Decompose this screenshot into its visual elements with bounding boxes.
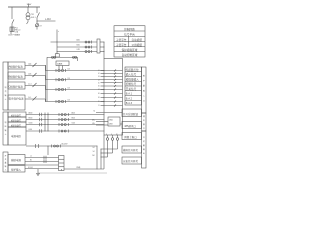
top right table (114, 26, 145, 57)
svg-text:1D1: 1D1 (68, 100, 71, 102)
svg-text:1-L1: 1-L1 (28, 97, 31, 99)
svg-text:公用模组: 公用模组 (132, 43, 143, 47)
box reserve port (122, 133, 142, 140)
AC supply wire with plug (26, 143, 98, 156)
svg-text:N1: N1 (30, 159, 32, 161)
svg-text:辅助电源: 辅助电源 (11, 158, 22, 162)
svg-text:LH: LH (40, 26, 43, 28)
svg-text:FU1: FU1 (15, 27, 18, 29)
rail x103 (103, 42, 105, 59)
bottom bus wire (60, 169, 62, 171)
svg-text:口: 口 (143, 127, 145, 130)
svg-text:B630: B630 (29, 117, 33, 119)
left strip voltage (3, 112, 8, 145)
right strip 2 (142, 113, 147, 131)
svg-text:保护模拟区域: 保护模拟区域 (122, 48, 138, 52)
svg-text:1D1: 1D1 (68, 69, 71, 71)
box analog switch (122, 146, 142, 153)
box zero-seq current (8, 95, 25, 110)
box B phase current (8, 72, 25, 79)
terminal strip top (97, 39, 100, 53)
svg-text:量: 量 (143, 84, 145, 88)
svg-text:仪表信号开关: 仪表信号开关 (123, 159, 139, 163)
box aux power (8, 155, 25, 165)
box A phase current (8, 62, 25, 69)
svg-text:相间电压: 相间电压 (11, 113, 22, 117)
svg-text:零序保护电流: 零序保护电流 (9, 97, 25, 101)
bus 10kV (8, 6, 40, 9)
svg-text:量: 量 (143, 143, 145, 147)
phase drop wire (56, 30, 58, 54)
svg-text:口: 口 (143, 100, 145, 103)
bottom terminals circles (92, 134, 119, 169)
svg-text:开: 开 (5, 154, 7, 158)
svg-text:02: 02 (98, 73, 100, 75)
voltage wire C (26, 122, 105, 126)
svg-text:C相保护电流: C相保护电流 (9, 84, 24, 88)
svg-text:输: 输 (5, 164, 7, 168)
svg-text:485A: 485A (109, 119, 113, 122)
svg-text:10kV: 10kV (27, 4, 32, 6)
svg-text:入: 入 (5, 169, 7, 172)
svg-text:开关信号: 开关信号 (126, 87, 137, 91)
svg-text:输入信号: 输入信号 (126, 73, 137, 77)
svg-text:C411: C411 (77, 49, 81, 51)
zero-seq loop (55, 54, 59, 57)
PT fuse block (10, 27, 12, 32)
svg-text:传感器点位: 传感器点位 (126, 68, 139, 72)
svg-text:1D1: 1D1 (68, 88, 71, 90)
current wire C (25, 83, 105, 91)
CT on feeder (36, 21, 38, 24)
breaker QF feeder (36, 7, 38, 13)
svg-text:字: 字 (143, 79, 145, 83)
svg-text:485+: 485+ (92, 120, 95, 122)
svg-text:RN2-10: RN2-10 (15, 29, 21, 31)
svg-text:模拟量输入: 模拟量输入 (126, 77, 139, 81)
pin left stubs (101, 71, 105, 106)
voltage boxes (8, 112, 26, 117)
bus label tick (27, 4, 29, 8)
box protect input (8, 166, 25, 173)
svg-text:1-A1: 1-A1 (28, 62, 32, 65)
phase wire C (57, 50, 97, 52)
wire L-010 (37, 20, 56, 22)
svg-text:TV1: TV1 (31, 14, 34, 16)
loop box (56, 61, 69, 66)
right strip 3 (142, 131, 147, 168)
right strip 1 (142, 67, 147, 113)
svg-text:08: 08 (98, 93, 100, 95)
svg-text:a: a (58, 31, 59, 33)
svg-text:B.A.1: B.A.1 (126, 92, 133, 96)
svg-text:模拟信号开关: 模拟信号开关 (123, 148, 139, 152)
svg-text:通: 通 (143, 114, 145, 118)
svg-text:控制回路: 控制回路 (124, 27, 135, 31)
svg-text:流: 流 (5, 89, 7, 93)
svg-text:信号平台: 信号平台 (124, 33, 135, 37)
svg-text:11: 11 (98, 105, 100, 107)
svg-text:A601: A601 (72, 111, 76, 114)
aux wires (25, 156, 59, 158)
svg-text:06: 06 (98, 86, 100, 88)
svg-text:相间电压: 相间电压 (11, 123, 22, 127)
svg-text:B相保护电流: B相保护电流 (9, 74, 24, 78)
svg-text:V: V (111, 134, 112, 136)
current wire B (25, 73, 105, 81)
svg-text:开: 开 (143, 135, 145, 139)
svg-text:接: 接 (143, 122, 145, 126)
svg-text:AC220V: AC220V (62, 143, 69, 146)
485 interface box (108, 117, 120, 126)
CT symbols on phase wires (77, 39, 92, 54)
voltage wire B (26, 117, 105, 121)
svg-text:电源电压: 电源电压 (11, 134, 22, 138)
ground (37, 169, 39, 173)
disconnect QS1 (11, 7, 13, 19)
pin labels (98, 70, 100, 107)
svg-text:B411: B411 (77, 45, 81, 47)
svg-text:D1-101: D1-101 (28, 167, 33, 169)
svg-text:A411: A411 (77, 39, 81, 42)
svg-text:03: 03 (98, 76, 100, 78)
left strip current (3, 62, 8, 110)
svg-text:B601: B601 (72, 117, 76, 119)
svg-text:出: 出 (143, 151, 145, 155)
svg-text:互感器: 互感器 (57, 62, 63, 66)
svg-text:X4: X4 (93, 110, 95, 112)
svg-text:子管平台: 子管平台 (116, 38, 127, 42)
interlock stub wire (96, 111, 122, 113)
box signal interlock (122, 109, 142, 117)
voltage section rails (44, 113, 46, 132)
svg-text:L-010: L-010 (45, 19, 52, 21)
svg-text:子管平台: 子管平台 (116, 43, 127, 47)
junction terminal box (59, 156, 65, 171)
svg-text:预留上报口: 预留上报口 (124, 135, 137, 139)
svg-text:L600: L600 (29, 129, 33, 131)
svg-text:U4: U4 (93, 147, 95, 149)
svg-text:量: 量 (5, 161, 7, 165)
box 485 comm (122, 122, 142, 129)
PE bus (38, 172, 107, 174)
svg-text:保护输入: 保护输入 (11, 167, 22, 171)
svg-text:A相保护电流: A相保护电流 (9, 64, 24, 68)
svg-text:485B: 485B (109, 123, 113, 125)
svg-text:W4: W4 (92, 155, 94, 157)
box C phase current (8, 82, 25, 89)
svg-text:V4: V4 (93, 151, 95, 153)
power wire (26, 129, 105, 133)
svg-text:控制信号: 控制信号 (126, 82, 137, 86)
svg-text:1D1: 1D1 (68, 78, 71, 80)
phase wire A (51, 41, 98, 43)
svg-text:关: 关 (143, 139, 145, 143)
voltage wire A (26, 111, 105, 116)
svg-text:自动控制区域: 自动控制区域 (122, 53, 138, 57)
svg-text:压: 压 (5, 124, 7, 128)
svg-text:09: 09 (98, 97, 100, 99)
svg-text:L1: L1 (30, 156, 32, 158)
svg-text:输: 输 (5, 93, 7, 97)
svg-text:输: 输 (143, 89, 145, 93)
svg-text:数: 数 (143, 74, 145, 78)
svg-text:B.A.3: B.A.3 (126, 101, 133, 105)
protection device outline (104, 59, 123, 136)
svg-text:自动模组: 自动模组 (132, 38, 143, 42)
svg-text:入: 入 (143, 95, 145, 98)
svg-text:U: U (106, 134, 107, 136)
current wire A (25, 62, 105, 72)
svg-text:C601: C601 (72, 122, 76, 124)
svg-text:信号反馈联锁: 信号反馈联锁 (123, 112, 139, 116)
svg-text:A630: A630 (29, 111, 33, 114)
right label column (125, 67, 142, 105)
svg-text:1-B1: 1-B1 (28, 73, 32, 75)
svg-text:电: 电 (5, 85, 7, 89)
svg-text:输: 输 (143, 147, 145, 151)
svg-text:PE线: PE线 (77, 166, 81, 169)
voltage transformer TV (27, 7, 29, 13)
current wire N (25, 97, 105, 104)
svg-text:10/0.1: 10/0.1 (31, 17, 36, 19)
svg-text:电: 电 (5, 120, 7, 124)
svg-text:485通讯口: 485通讯口 (124, 124, 136, 128)
left strip switch input (3, 152, 8, 172)
svg-text:关: 关 (5, 157, 7, 161)
svg-text:相间电压: 相间电压 (11, 118, 22, 122)
pin end ticks (114, 70, 116, 107)
svg-text:10kV PT熔断器: 10kV PT熔断器 (8, 33, 20, 37)
rail x97 (96, 146, 98, 169)
device pin rows (104, 71, 123, 106)
svg-text:讯: 讯 (143, 118, 145, 122)
box meter switch (122, 157, 142, 164)
svg-text:输: 输 (5, 128, 7, 132)
svg-text:C630: C630 (29, 122, 33, 124)
node L-010 (37, 21, 38, 22)
svg-text:入: 入 (5, 98, 7, 101)
svg-text:1-C1: 1-C1 (28, 83, 32, 85)
svg-text:05: 05 (98, 82, 100, 84)
svg-text:B.A.2: B.A.2 (126, 96, 133, 100)
svg-text:入: 入 (5, 133, 7, 136)
phase wire B (57, 46, 97, 48)
